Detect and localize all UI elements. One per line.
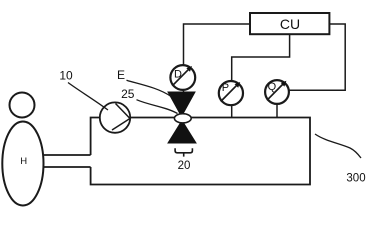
svg-text:H: H xyxy=(20,156,27,167)
svg-text:25: 25 xyxy=(121,87,135,101)
duct 300 outline xyxy=(91,118,310,185)
sensor D xyxy=(170,65,195,90)
leader line E xyxy=(127,80,172,96)
svg-text:E: E xyxy=(117,68,125,82)
pump 10 circle xyxy=(100,102,130,132)
humidifier H head xyxy=(10,93,35,118)
wire CU to sensor P xyxy=(232,34,290,81)
leader line 300 xyxy=(315,134,361,158)
humidifier H body xyxy=(2,122,43,206)
wire sensor D to valve xyxy=(183,89,185,93)
wire CU to sensor D xyxy=(184,24,251,65)
sensor Q xyxy=(265,80,289,104)
svg-text:20: 20 xyxy=(178,160,191,172)
wire pipe from H to duct (bottom) xyxy=(43,166,91,168)
valve 20 bottom triangle xyxy=(168,121,196,144)
svg-text:P: P xyxy=(222,82,229,94)
wire CU to sensor Q xyxy=(289,24,345,90)
leader line 25 xyxy=(137,100,178,114)
leader line 10 xyxy=(68,83,108,111)
wire pipe from H to duct (top) xyxy=(43,154,91,156)
control unit CU xyxy=(250,13,329,34)
valve actuator 25 ellipse xyxy=(174,114,191,123)
svg-text:10: 10 xyxy=(59,68,73,82)
svg-text:D: D xyxy=(174,68,182,80)
pump 10 triangle chords xyxy=(112,104,130,131)
svg-text:300: 300 xyxy=(346,173,365,185)
underbrace for 20 xyxy=(175,148,192,156)
sensor P xyxy=(219,81,243,105)
wire sensor Q to duct xyxy=(276,104,278,118)
valve 20 top triangle xyxy=(168,92,195,117)
wire sensor P to duct xyxy=(231,105,233,118)
svg-text:CU: CU xyxy=(280,16,300,32)
